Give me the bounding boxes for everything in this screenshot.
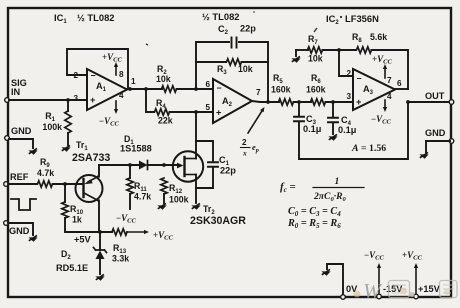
ground (0V) — [321, 269, 330, 275]
svg-text:x: x — [242, 149, 247, 158]
node — [194, 87, 198, 91]
svg-text:5: 5 — [205, 103, 210, 112]
node — [144, 87, 148, 91]
resistor R8 — [352, 32, 387, 53]
wire A3 output — [395, 88, 408, 90]
svg-text:−: − — [91, 71, 96, 81]
svg-text:GND: GND — [9, 226, 30, 236]
wire OUT — [408, 101, 450, 103]
svg-text:8: 8 — [119, 70, 124, 79]
svg-text:+15V: +15V — [418, 284, 441, 294]
svg-text:1: 1 — [335, 176, 340, 187]
wire — [170, 111, 214, 113]
wire — [239, 42, 268, 102]
svg-text:5.6k: 5.6k — [370, 32, 387, 42]
capacitor C1 — [196, 141, 236, 188]
svg-text:4: 4 — [387, 92, 392, 101]
svg-text:W: W — [363, 279, 383, 303]
svg-text:OUT: OUT — [425, 91, 445, 101]
resistor R4 — [155, 98, 173, 126]
node REF — [4, 182, 9, 187]
svg-text:3: 3 — [346, 92, 351, 101]
svg-text:3.3k: 3.3k — [112, 254, 129, 264]
wire R4 branch — [146, 89, 154, 112]
wire — [294, 101, 312, 103]
wire — [242, 61, 269, 63]
svg-text:3: 3 — [73, 94, 78, 103]
wire — [295, 50, 297, 56]
square wave symbol — [11, 199, 36, 210]
transistor Tr2 2SK30A JFET — [173, 151, 246, 227]
svg-text:160k: 160k — [306, 85, 326, 95]
wire — [296, 49, 308, 51]
wire — [426, 141, 450, 152]
svg-text:½ TL082: ½ TL082 — [202, 11, 240, 22]
watermark — [354, 279, 458, 303]
svg-text:½ TL082: ½ TL082 — [77, 12, 115, 23]
wire — [326, 101, 354, 103]
wire A2 output — [252, 101, 279, 102]
svg-text:RD5.1E: RD5.1E — [56, 263, 88, 273]
wire — [53, 183, 84, 185]
ground (C4) — [328, 134, 337, 140]
node — [194, 110, 198, 114]
capacitor C2 — [218, 24, 256, 48]
svg-text:−: − — [357, 74, 362, 84]
node -15V supply — [364, 250, 403, 299]
wire drain to A2 + — [195, 112, 197, 159]
node SIG IN — [5, 98, 10, 103]
op-amp A2 — [205, 79, 261, 123]
wire A1 feedback — [67, 49, 128, 89]
wire — [67, 100, 69, 111]
svg-text:100k: 100k — [42, 122, 62, 132]
node 0V — [327, 264, 358, 299]
wire emitter — [98, 165, 99, 177]
svg-text:2SA733: 2SA733 — [72, 152, 110, 164]
resistor R13 — [112, 229, 129, 264]
svg-text:4.7k: 4.7k — [134, 192, 151, 202]
svg-text:2πC0·R0: 2πC0·R0 — [313, 191, 347, 203]
resistor R2 — [156, 64, 177, 92]
svg-text:6: 6 — [205, 80, 210, 89]
ground (R12) — [157, 203, 166, 209]
ground (GND terminal upper) — [28, 148, 37, 154]
resistor R5 — [271, 73, 294, 105]
node base — [63, 182, 67, 186]
wire to +Vcc with arrow — [127, 231, 144, 233]
svg-text:10k: 10k — [308, 54, 323, 64]
svg-text:1k: 1k — [72, 215, 82, 225]
diode D2 RD5.1E — [56, 232, 107, 274]
stray scan marks — [146, 28, 317, 45]
ground (R7) — [291, 56, 300, 62]
ground (D2) — [95, 274, 104, 280]
svg-text:1: 1 — [131, 77, 136, 86]
svg-text:4.7k: 4.7k — [37, 168, 54, 178]
svg-text:4: 4 — [119, 91, 124, 100]
node +5V — [98, 230, 102, 234]
wire — [8, 223, 33, 235]
wire collector — [98, 201, 99, 233]
svg-text:+5V: +5V — [74, 235, 91, 245]
node GND (upper left) — [5, 136, 10, 141]
wire — [67, 133, 69, 145]
ground (R1) — [61, 145, 70, 151]
-Vcc arrow of A1 — [115, 101, 117, 109]
node OUT junction — [406, 100, 410, 104]
svg-text:+: + — [90, 95, 95, 105]
svg-text:100k: 100k — [169, 195, 189, 205]
+Vcc arrow of A3 — [384, 69, 386, 78]
wire — [9, 139, 33, 148]
svg-text:6: 6 — [397, 79, 402, 88]
resistor R3 — [217, 59, 253, 76]
wire — [129, 165, 131, 178]
svg-text:fc =: fc = — [280, 181, 296, 194]
svg-text:2SK30AGR: 2SK30AGR — [190, 215, 246, 227]
wire — [177, 88, 214, 90]
diode D1 1S1588 — [120, 134, 152, 170]
svg-text:GND: GND — [11, 126, 32, 136]
transistor Tr1 2SA733 — [72, 140, 110, 202]
svg-text:160k: 160k — [271, 85, 291, 95]
wire R8 to output — [372, 50, 409, 89]
svg-text:+: + — [216, 108, 221, 118]
wire — [163, 194, 165, 203]
op-amp A1 — [73, 69, 136, 110]
node GND (lower left) — [4, 221, 9, 226]
node — [331, 100, 335, 104]
wire — [332, 123, 334, 135]
wire — [64, 184, 66, 202]
wire — [65, 218, 112, 232]
svg-text:1S1588: 1S1588 — [120, 144, 152, 154]
wire — [9, 99, 87, 101]
ground (GND terminal lower) — [28, 235, 37, 241]
capacitor C3 — [294, 102, 322, 134]
resistor R1 — [42, 111, 71, 133]
svg-text:REF: REF — [10, 172, 29, 182]
resistor R9 — [37, 157, 54, 187]
svg-text:IN: IN — [11, 87, 21, 97]
-Vcc arrow of A3 — [384, 100, 386, 107]
svg-text:2: 2 — [346, 69, 351, 78]
svg-text:0.1μ: 0.1μ — [338, 125, 357, 135]
op-amp A3 — [346, 69, 402, 110]
ground (right GND) — [419, 152, 428, 158]
node — [162, 163, 166, 167]
label 2/x ep with arrow — [241, 107, 265, 158]
wire A2 feedback left — [196, 42, 229, 89]
svg-text:−: − — [217, 83, 222, 93]
node +15V supply — [402, 250, 441, 299]
resistor R10 — [62, 202, 84, 225]
wire D1 row — [99, 164, 139, 166]
wire A3 inverting input — [339, 50, 353, 76]
svg-text:GND: GND — [425, 128, 446, 138]
wire — [323, 49, 357, 51]
wire R3 row — [196, 61, 226, 63]
node R1 junction — [66, 98, 70, 102]
svg-text:A = 1.56: A = 1.56 — [351, 143, 386, 154]
svg-text:0.1μ: 0.1μ — [303, 124, 322, 134]
wire — [8, 183, 37, 185]
ground (Tr2 source) — [191, 203, 200, 209]
svg-text:2: 2 — [242, 138, 247, 147]
node GND terminal right — [449, 139, 454, 144]
node A1 output — [128, 87, 132, 91]
svg-text:22p: 22p — [240, 24, 256, 34]
svg-text:LF356N: LF356N — [345, 13, 379, 24]
resistor R6 — [306, 73, 326, 105]
node — [128, 163, 132, 167]
svg-text:+: + — [356, 97, 361, 107]
svg-text:10k: 10k — [238, 64, 253, 74]
wire A1 output — [127, 88, 162, 90]
wire — [129, 194, 131, 209]
resistor R12 — [161, 178, 189, 205]
svg-text:22k: 22k — [158, 116, 173, 126]
svg-text:7: 7 — [387, 76, 392, 85]
+Vcc arrow of A1 — [115, 67, 117, 75]
wire gate row — [148, 164, 179, 166]
node A2 output — [266, 100, 270, 104]
wire source — [195, 175, 197, 204]
node — [337, 48, 341, 52]
resistor R11 — [127, 178, 151, 202]
svg-text:7: 7 — [256, 88, 261, 97]
formula fc = 1/(2 pi C0 R0) — [280, 176, 364, 203]
node OUT terminal — [449, 100, 454, 105]
resistor R7 — [308, 34, 323, 64]
capacitor C4 — [328, 102, 357, 135]
node — [297, 100, 301, 104]
svg-text:10k: 10k — [156, 74, 171, 84]
wire C3 bootstrap to output — [299, 102, 408, 159]
svg-text:22p: 22p — [220, 166, 236, 176]
